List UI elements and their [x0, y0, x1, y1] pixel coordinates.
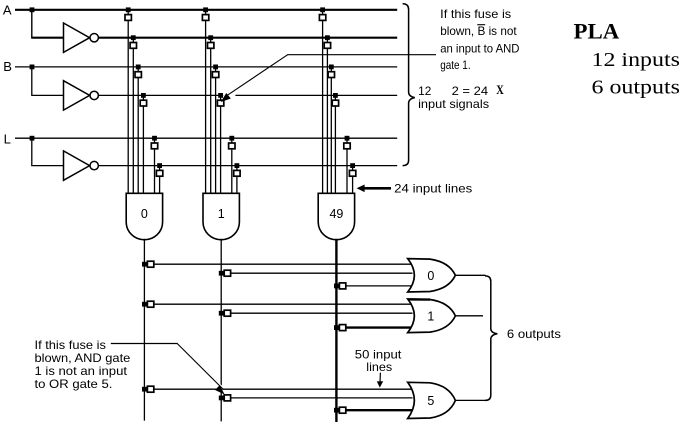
wire: input line B (y=66.9) — [15, 66, 397, 68]
wire: AND gate 1 input column from row B&#772; — [220, 95, 222, 193]
AND gate 1 body — [203, 193, 239, 239]
fuse on OR gate 5 input from AND 1 — [224, 395, 230, 401]
overline on B (B-bar) — [477, 24, 485, 26]
junction dot AND gate 49 / row B — [329, 65, 334, 70]
wire: OR gate 0 output — [455, 274, 485, 276]
wire: branch down to U3 (L inverter) — [31, 138, 33, 165]
svg-text:A: A — [3, 2, 12, 17]
AND gate 0 body — [126, 193, 162, 240]
wire: AND gate 49 input column from row L — [346, 138, 348, 193]
inverter U2 (B inverter) bubble — [90, 91, 98, 99]
junction dot AND gate 0 / row L&#772; — [157, 163, 162, 168]
arrow: 50 input lines — [379, 373, 381, 383]
wire: branch into U2 (B inverter) input — [31, 94, 63, 96]
svg-text:6 outputs: 6 outputs — [507, 327, 561, 341]
OR gate 1 top edge emphasis — [409, 298, 431, 301]
svg-text:gate 1.: gate 1. — [440, 58, 470, 72]
junction dot AND gate 0 / row B — [136, 65, 141, 70]
fuse on OR gate 0 input from AND 0 — [147, 261, 153, 267]
wire: inverted input line B&#772; (y=95.4) — [99, 94, 398, 96]
junction dot OR gate 5 input from AND 49 — [334, 408, 339, 413]
fuse on AND gate 0 input from row B — [135, 72, 141, 78]
fuse on AND gate 1 input from row A — [202, 15, 208, 21]
svg-text:1: 1 — [427, 309, 434, 323]
fuse on OR gate 0 input from AND 1 — [224, 270, 230, 276]
annotation pointer to blown fuse (OR plane), horizontal segment — [111, 343, 178, 345]
wire: AND gate 0 input column from row B — [137, 67, 139, 193]
wire: AND gate 1 input column from row B — [215, 67, 217, 193]
wire: OR gate 5 input from AND 49 — [336, 409, 412, 411]
junction dot AND gate 1 / row B&#772; — [218, 93, 223, 98]
svg-text:24 input lines: 24 input lines — [394, 181, 472, 195]
junction dot AND gate 0 / row A — [126, 7, 131, 12]
inverter U3 (L inverter) triangle — [64, 151, 90, 180]
wire: OR gate 0 input from AND 49 — [336, 285, 412, 287]
fuse on AND gate 1 input from row B — [212, 72, 218, 78]
fuse on AND gate 0 input from row A — [125, 15, 131, 21]
junction dot OR gate 1 input from AND 0 — [142, 302, 147, 307]
wire: AND gate 1 input column from row A — [205, 10, 207, 194]
inverter U3 (L inverter) bubble — [90, 161, 98, 169]
wire: OR gate 0 input from AND 1 — [221, 272, 412, 274]
svg-text:6 outputs: 6 outputs — [592, 77, 681, 98]
junction dot OR gate 5 input from AND 1 — [219, 396, 224, 401]
junction dot AND gate 1 / row A — [203, 7, 208, 12]
fuse on AND gate 0 input from row B&#772; — [140, 100, 146, 106]
fuse on OR gate 5 input from AND 49 — [339, 407, 345, 413]
svg-text:50 input: 50 input — [355, 347, 402, 361]
annotation pointer to blown fuse (AND plane), diagonal segment — [225, 55, 288, 97]
wire: OR gate 1 input from AND 0 — [144, 303, 412, 305]
wire: AND gate 49 input column from row L&#772; — [352, 166, 354, 194]
brace grouping 6 outputs — [485, 276, 497, 401]
wire: OR gate 5 output — [455, 399, 485, 401]
fuse on AND gate 49 input from row A&#772; — [324, 43, 330, 49]
fuse on AND gate 49 input from row B — [328, 72, 334, 78]
wire: AND gate 0 input column from row A&#772; — [132, 38, 134, 194]
fuse on AND gate 1 input from row L — [229, 143, 235, 149]
junction dot OR gate 0 input from AND 0 — [142, 262, 147, 267]
annotation pointer to blown fuse (OR plane), diagonal segment — [177, 344, 223, 390]
svg-text:0: 0 — [141, 207, 148, 221]
wire: AND gate 0 input column from row B&#772; — [142, 95, 144, 193]
wire: AND gate 0 output column — [143, 239, 145, 421]
fuse on OR gate 1 input from AND 49 — [339, 325, 345, 331]
svg-text:5: 5 — [427, 394, 434, 408]
wire: AND gate 0 input column from row L — [154, 138, 156, 193]
arrowhead at blown fuse (OR plane) — [216, 386, 224, 394]
OR gate 5 body — [408, 382, 456, 418]
fuse on AND gate 0 input from row A&#772; — [130, 43, 136, 49]
junction dot on input row for U1 (A inverter) — [30, 7, 35, 12]
svg-text:input signals: input signals — [418, 97, 489, 111]
wire: OR gate 1 input from AND 1 — [221, 312, 412, 314]
annotation pointer to blown fuse (AND plane), horizontal segment — [287, 54, 436, 56]
junction dot AND gate 1 / row L — [229, 136, 234, 141]
svg-text:X: X — [496, 83, 504, 97]
junction dot AND gate 0 / row L — [152, 136, 157, 141]
junction dot AND gate 49 / row A&#772; — [325, 35, 330, 40]
wire: AND gate 49 input column from row B&#772; — [334, 95, 336, 193]
wire: OR gate 1 output — [455, 315, 483, 317]
svg-text:1: 1 — [218, 207, 225, 221]
svg-text:PLA: PLA — [574, 19, 620, 44]
junction dot OR gate 0 input from AND 49 — [334, 284, 339, 289]
wire: OR gate 1 input from AND 49 — [336, 326, 412, 328]
wire: AND gate 1 output column — [220, 239, 222, 422]
inverter U2 (B inverter) triangle — [64, 81, 90, 110]
brace grouping 24 input lines — [403, 4, 415, 166]
svg-text:12 inputs: 12 inputs — [592, 50, 681, 71]
OR gate 1 body — [408, 299, 456, 333]
svg-text:1 is not an input: 1 is not an input — [35, 364, 128, 378]
junction dot OR gate 1 input from AND 49 — [334, 325, 339, 330]
wire: input line A (y=9.8) — [15, 9, 397, 11]
junction dot AND gate 1 / row A&#772; — [208, 35, 213, 40]
annotation pointer to blown fuse (OR plane), end casing — [206, 373, 223, 389]
wire: AND gate 1 input column from row L — [231, 138, 233, 193]
junction dot OR gate 0 input from AND 1 — [219, 271, 224, 276]
svg-text:to OR gate 5.: to OR gate 5. — [35, 377, 113, 391]
svg-text:If this fuse is: If this fuse is — [440, 7, 511, 21]
svg-text:0: 0 — [427, 269, 434, 283]
fuse on OR gate 1 input from AND 0 — [147, 301, 153, 307]
fuse on AND gate 1 input from row L&#772; — [234, 170, 240, 176]
fuse on AND gate 1 input from row B&#772; — [217, 100, 223, 106]
svg-text:lines: lines — [366, 360, 392, 374]
svg-text:an input to AND: an input to AND — [440, 41, 520, 55]
junction dot OR gate 5 input from AND 0 — [142, 387, 147, 392]
svg-text:blown, B is not: blown, B is not — [440, 24, 517, 38]
arrowhead at blown fuse (AND plane) — [222, 94, 230, 101]
fuse on AND gate 0 input from row L&#772; — [156, 170, 162, 176]
junction dot on input row for U3 (L inverter) — [30, 136, 35, 141]
junction dot AND gate 49 / row A — [320, 7, 325, 12]
wire: AND gate 1 input column from row L&#772; — [236, 166, 238, 194]
junction dot AND gate 49 / row B&#772; — [333, 93, 338, 98]
wire: input line L (y=138.2) — [15, 137, 397, 139]
junction dot on input row for U2 (B inverter) — [30, 65, 35, 70]
svg-text:If this fuse is: If this fuse is — [35, 338, 106, 352]
svg-text:blown, AND gate: blown, AND gate — [35, 351, 131, 365]
wire: inverted input line L&#772; (y=165.6) — [99, 165, 398, 167]
junction dot AND gate 49 / row L&#772; — [350, 163, 355, 168]
inverter U1 (A inverter) bubble — [90, 34, 98, 42]
wire: branch into U3 (L inverter) input — [31, 165, 63, 167]
fuse on AND gate 49 input from row L — [344, 143, 350, 149]
fuse on OR gate 1 input from AND 1 — [224, 310, 230, 316]
gap in row B-bar at blown fuse — [223, 93, 235, 97]
wire: AND gate 1 input column from row A&#772; — [210, 38, 212, 194]
fuse on AND gate 49 input from row L&#772; — [349, 170, 355, 176]
junction dot AND gate 1 / row B — [213, 65, 218, 70]
junction dot AND gate 1 / row L&#772; — [235, 163, 240, 168]
fuse on AND gate 49 input from row A — [319, 15, 325, 21]
wire: branch down to U2 (B inverter) — [31, 67, 33, 96]
fuse on AND gate 49 input from row B&#772; — [332, 100, 338, 106]
svg-text:B: B — [3, 59, 12, 74]
svg-text:49: 49 — [329, 207, 343, 221]
wire: AND gate 0 input column from row A — [127, 10, 129, 194]
junction dot AND gate 0 / row B&#772; — [141, 93, 146, 98]
wire: branch into U1 (A inverter) input — [31, 37, 63, 39]
fuse on AND gate 1 input from row A&#772; — [208, 43, 214, 49]
svg-text:L: L — [4, 132, 11, 147]
fuse on AND gate 0 input from row L — [151, 143, 157, 149]
wire: AND gate 49 input column from row A — [322, 10, 324, 194]
fuse on OR gate 5 input from AND 0 — [147, 386, 153, 392]
junction dot AND gate 0 / row A&#772; — [131, 35, 136, 40]
junction dot OR gate 1 input from AND 1 — [219, 311, 224, 316]
wire: AND gate 49 input column from row B — [330, 67, 332, 193]
wire: inverted input line A&#772; (y=37.7) — [99, 37, 398, 39]
wire: AND gate 49 output column — [335, 239, 337, 422]
wire: OR gate 5 input from AND 1 — [221, 397, 412, 399]
OR gate 0 body — [408, 259, 456, 292]
inverter U1 (A inverter) triangle — [64, 23, 90, 52]
wire: OR gate 0 input from AND 0 — [144, 263, 412, 265]
wire: OR gate 5 input from AND 0 — [144, 388, 412, 390]
wire: AND gate 0 input column from row L&#772; — [159, 166, 161, 194]
arrow: 24 input lines — [363, 187, 391, 190]
wire: branch down to U1 (A inverter) — [31, 10, 33, 38]
wire: AND gate 49 input column from row A&#772; — [326, 38, 328, 194]
fuse on OR gate 0 input from AND 49 — [339, 283, 345, 289]
AND gate 49 body — [318, 193, 354, 239]
junction dot AND gate 49 / row L — [345, 136, 350, 141]
